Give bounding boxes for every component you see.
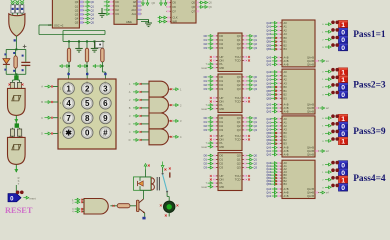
svg-text:OSC =2: OSC =2 bbox=[54, 24, 64, 28]
svg-text:Q3: Q3 bbox=[237, 128, 241, 132]
svg-text:D0: D0 bbox=[204, 34, 208, 38]
svg-text:Q2: Q2 bbox=[254, 83, 258, 87]
and-gate U10 output terminal bbox=[169, 104, 172, 106]
keypad button 5 bbox=[81, 97, 93, 109]
counter U16 74193 bbox=[218, 153, 242, 191]
svg-text:A10: A10 bbox=[131, 8, 136, 12]
svg-text:MR: MR bbox=[220, 145, 224, 149]
comparator U18 7485 bbox=[282, 69, 315, 114]
svg-text:B3: B3 bbox=[284, 47, 288, 51]
keypad button 2 bbox=[81, 83, 93, 95]
svg-text:Q0: Q0 bbox=[254, 75, 258, 79]
svg-text:A8: A8 bbox=[133, 0, 137, 4]
schmitt inverter U3 bbox=[8, 137, 26, 164]
svg-text:A11: A11 bbox=[132, 12, 137, 16]
svg-text:QB0: QB0 bbox=[266, 132, 271, 135]
keypad button ✱ bbox=[63, 127, 75, 139]
keypad button 1 bbox=[63, 83, 75, 95]
svg-text:B1: B1 bbox=[284, 135, 288, 139]
svg-text:D2: D2 bbox=[204, 83, 208, 87]
wire U21 output to R5 bbox=[110, 205, 117, 207]
relay RL1 coil bbox=[151, 178, 154, 190]
svg-text:Q2: Q2 bbox=[254, 42, 258, 46]
svg-text:D3: D3 bbox=[204, 46, 208, 50]
resistor R5 bbox=[117, 204, 130, 208]
power terminal for relay bbox=[144, 164, 147, 170]
junction J2 bbox=[15, 123, 19, 127]
gate input terminals column bbox=[141, 83, 150, 85]
svg-text:MR: MR bbox=[220, 66, 224, 70]
svg-text:Q0: Q0 bbox=[254, 116, 258, 120]
svg-text:A=B: A=B bbox=[284, 106, 289, 110]
svg-text:Q7: Q7 bbox=[192, 10, 196, 14]
svg-text:reset: reset bbox=[201, 66, 207, 70]
svg-text:QA=B: QA=B bbox=[307, 106, 314, 110]
resistor R2 bbox=[68, 41, 70, 48]
svg-text:B3: B3 bbox=[284, 182, 288, 186]
svg-text:QA1: QA1 bbox=[266, 26, 271, 29]
svg-text:A<B: A<B bbox=[284, 55, 289, 59]
svg-text:QA0: QA0 bbox=[266, 118, 271, 121]
svg-text:C: C bbox=[41, 116, 43, 120]
svg-text:TCD: TCD bbox=[235, 100, 241, 104]
and-gate U21 4-input bbox=[84, 199, 108, 215]
ground G1 under U7 bbox=[98, 8, 106, 17]
ic U8 latch top-center bbox=[171, 0, 196, 23]
svg-text:D1: D1 bbox=[204, 120, 208, 124]
transistor Q1 bbox=[136, 200, 139, 212]
and-gate U21 input terminals bbox=[82, 199, 84, 201]
counter U14 74193 bbox=[218, 74, 242, 113]
or-gate U1 input terminals bbox=[11, 0, 15, 4]
schmitt inverter U2 bbox=[8, 88, 26, 115]
svg-text:QB2: QB2 bbox=[266, 44, 271, 47]
keypad button 9 bbox=[100, 112, 112, 124]
svg-text:Q1: Q1 bbox=[254, 79, 258, 83]
or-gate U1 body bbox=[9, 14, 25, 36]
wire split to U2 inputs bbox=[11, 80, 13, 82]
svg-text:A3: A3 bbox=[284, 81, 288, 85]
svg-text:B0: B0 bbox=[284, 85, 288, 89]
svg-text:Pass2=3: Pass2=3 bbox=[353, 81, 386, 91]
svg-text:QB3: QB3 bbox=[266, 143, 271, 146]
svg-text:reset: reset bbox=[201, 107, 207, 111]
ic U6 keypad encoder top-left bbox=[52, 0, 79, 28]
svg-text:Q2: Q2 bbox=[75, 8, 79, 12]
svg-text:A<B: A<B bbox=[284, 187, 289, 191]
svg-text:CLK: CLK bbox=[173, 16, 178, 20]
svg-text:Q3: Q3 bbox=[75, 13, 79, 17]
svg-text:D2: D2 bbox=[116, 8, 120, 12]
led D2 green bbox=[164, 201, 175, 212]
resistor R1 bbox=[15, 49, 17, 56]
and-gate U11 bbox=[149, 113, 168, 129]
switch SW1 bbox=[162, 173, 164, 175]
svg-text:B0: B0 bbox=[284, 36, 288, 40]
svg-text:QA1: QA1 bbox=[266, 75, 271, 78]
comparator U17 7485 bbox=[282, 20, 315, 67]
svg-text:D3: D3 bbox=[204, 128, 208, 132]
svg-text:D1: D1 bbox=[204, 158, 208, 162]
svg-text:7: 7 bbox=[66, 114, 71, 123]
svg-text:A>B: A>B bbox=[284, 110, 289, 114]
svg-text:B1: B1 bbox=[284, 40, 288, 44]
svg-text:D3: D3 bbox=[220, 166, 224, 170]
svg-text:QB3: QB3 bbox=[266, 48, 271, 51]
svg-text:A0: A0 bbox=[284, 21, 288, 25]
svg-text:B2: B2 bbox=[284, 93, 288, 97]
keypad column vertical wires bbox=[68, 71, 70, 73]
svg-text:D7: D7 bbox=[173, 10, 177, 14]
keypad button # bbox=[100, 127, 112, 139]
keypad button 3 bbox=[100, 83, 112, 95]
svg-text:Q3: Q3 bbox=[237, 46, 241, 50]
logic toggle RESET probe bbox=[8, 194, 21, 202]
svg-text:QA2: QA2 bbox=[266, 63, 271, 66]
svg-text:A: A bbox=[129, 90, 131, 94]
ic U7 latch top-left bbox=[114, 0, 137, 24]
and-gate U9 output terminal bbox=[169, 88, 172, 90]
svg-text:QA=B: QA=B bbox=[307, 191, 314, 195]
and-gate U10 bbox=[149, 97, 168, 113]
svg-text:QA0: QA0 bbox=[266, 71, 271, 74]
svg-text:MR: MR bbox=[220, 107, 224, 111]
svg-text:QA2: QA2 bbox=[266, 79, 271, 82]
svg-text:QA1: QA1 bbox=[266, 121, 271, 124]
ground G3 bbox=[75, 41, 83, 52]
svg-text:TCD: TCD bbox=[235, 138, 241, 142]
svg-text:Q1: Q1 bbox=[254, 120, 258, 124]
svg-text:QB1: QB1 bbox=[266, 41, 271, 44]
svg-text:D3: D3 bbox=[204, 87, 208, 91]
svg-text:TCD: TCD bbox=[235, 59, 241, 63]
svg-text:QA>B: QA>B bbox=[307, 194, 314, 198]
svg-text:Q2: Q2 bbox=[254, 124, 258, 128]
svg-text:QA0: QA0 bbox=[266, 22, 271, 25]
svg-text:QA2: QA2 bbox=[266, 154, 271, 157]
svg-text:QB3: QB3 bbox=[266, 183, 271, 186]
svg-text:A2: A2 bbox=[284, 78, 288, 82]
svg-text:Q0: Q0 bbox=[254, 154, 258, 158]
svg-text:D0: D0 bbox=[204, 75, 208, 79]
svg-text:reset: reset bbox=[201, 185, 207, 189]
svg-text:Q6: Q6 bbox=[192, 5, 196, 9]
svg-text:A: A bbox=[41, 85, 43, 89]
svg-text:B3: B3 bbox=[284, 96, 288, 100]
svg-text:Q1: Q1 bbox=[254, 158, 258, 162]
switch SW1 terminal bbox=[161, 162, 164, 169]
svg-text:QA3: QA3 bbox=[266, 82, 271, 85]
svg-text:Q3: Q3 bbox=[254, 87, 258, 91]
svg-text:D1: D1 bbox=[204, 79, 208, 83]
svg-text:C: C bbox=[105, 82, 107, 85]
svg-text:Q6: Q6 bbox=[152, 1, 156, 5]
svg-text:A0: A0 bbox=[284, 117, 288, 121]
wire U3 output to reset probe bbox=[15, 164, 17, 172]
ground G2 bbox=[145, 20, 152, 27]
svg-text:B1: B1 bbox=[284, 89, 288, 93]
svg-text:A1: A1 bbox=[284, 120, 288, 124]
svg-text:Q0: Q0 bbox=[254, 34, 258, 38]
svg-text:D0: D0 bbox=[116, 0, 120, 4]
svg-text:A1: A1 bbox=[284, 25, 288, 29]
svg-text:8: 8 bbox=[85, 114, 90, 123]
svg-text:A>B: A>B bbox=[284, 194, 289, 198]
ground G4 bbox=[91, 41, 99, 52]
svg-text:MR: MR bbox=[220, 185, 224, 189]
svg-text:A>B: A>B bbox=[284, 153, 289, 157]
svg-text:A>B: A>B bbox=[284, 62, 289, 66]
svg-text:A2: A2 bbox=[284, 28, 288, 32]
svg-text:Q3: Q3 bbox=[254, 166, 258, 170]
keypad button 7 bbox=[63, 112, 75, 124]
svg-text:B3: B3 bbox=[284, 142, 288, 146]
keypad button 4 bbox=[63, 97, 75, 109]
svg-text:Q4: Q4 bbox=[75, 17, 79, 21]
comparator U20 7485 bbox=[282, 160, 315, 198]
svg-text:A=B: A=B bbox=[284, 191, 289, 195]
resistor R4 bbox=[101, 41, 103, 48]
svg-text:D5: D5 bbox=[173, 1, 177, 5]
svg-text:A2: A2 bbox=[284, 124, 288, 128]
svg-text:QA=B: QA=B bbox=[307, 149, 314, 153]
svg-text:Q2: Q2 bbox=[254, 162, 258, 166]
or-gate U1 output wire bbox=[15, 36, 17, 50]
svg-text:0: 0 bbox=[341, 45, 345, 52]
svg-text:D: D bbox=[129, 138, 131, 142]
counter U15 74193 bbox=[218, 115, 242, 151]
svg-text:D2: D2 bbox=[204, 162, 208, 166]
svg-text:QB1: QB1 bbox=[266, 90, 271, 93]
svg-text:QB0: QB0 bbox=[266, 86, 271, 89]
svg-text:D3: D3 bbox=[204, 166, 208, 170]
node bottom rail of RC network bbox=[6, 73, 26, 75]
svg-text:D2: D2 bbox=[204, 42, 208, 46]
svg-text:WR: WR bbox=[173, 20, 177, 24]
svg-text:✱: ✱ bbox=[65, 129, 72, 138]
input connector boxes of U3 bbox=[11, 128, 13, 129]
wire switch to LED bbox=[166, 193, 168, 197]
svg-text:5: 5 bbox=[85, 99, 90, 108]
svg-text:Pass3=9: Pass3=9 bbox=[353, 127, 386, 137]
svg-text:A3: A3 bbox=[284, 127, 288, 131]
svg-text:QB3: QB3 bbox=[266, 97, 271, 100]
svg-text:B0: B0 bbox=[284, 131, 288, 135]
svg-text:D6: D6 bbox=[173, 5, 177, 9]
wire ground rail above keypad bbox=[63, 40, 105, 42]
svg-text:QA2: QA2 bbox=[266, 111, 271, 114]
svg-text:4: 4 bbox=[66, 99, 71, 108]
keypad column wires with terminals bbox=[68, 62, 70, 72]
and-gate U11 output terminal bbox=[169, 120, 172, 122]
svg-text:Q5: Q5 bbox=[192, 1, 196, 5]
svg-text:QB0: QB0 bbox=[266, 37, 271, 40]
svg-text:#: # bbox=[103, 129, 108, 138]
counter U13 74193 bbox=[218, 33, 242, 72]
svg-text:Q1: Q1 bbox=[254, 38, 258, 42]
diode D1 bbox=[5, 49, 7, 58]
svg-text:D1: D1 bbox=[204, 38, 208, 42]
button LS1 bbox=[95, 42, 103, 48]
and-gate U12 output terminal bbox=[169, 136, 172, 138]
svg-text:QA3: QA3 bbox=[266, 128, 271, 131]
svg-text:QA2: QA2 bbox=[266, 29, 271, 32]
svg-text:A<B: A<B bbox=[284, 103, 289, 107]
resistor R3 bbox=[86, 41, 88, 48]
comparator U19 7485 bbox=[282, 116, 315, 157]
svg-text:Pass4=4: Pass4=4 bbox=[353, 174, 386, 184]
keypad button 6 bbox=[100, 97, 112, 109]
svg-text:TCD: TCD bbox=[235, 178, 241, 182]
svg-text:D1: D1 bbox=[116, 4, 120, 8]
and-gate U9 bbox=[149, 81, 168, 97]
keypad button 0 bbox=[81, 127, 93, 139]
svg-text:C: C bbox=[129, 122, 131, 126]
svg-text:Q0: Q0 bbox=[75, 0, 79, 4]
svg-text:QB2: QB2 bbox=[266, 94, 271, 97]
svg-text:Q3: Q3 bbox=[254, 46, 258, 50]
wire U2 output bbox=[15, 115, 17, 125]
svg-text:1: 1 bbox=[341, 139, 345, 146]
svg-text:Q3: Q3 bbox=[237, 166, 241, 170]
svg-text:6: 6 bbox=[103, 99, 108, 108]
svg-text:QA<B: QA<B bbox=[307, 146, 314, 150]
keypad row pins bbox=[53, 86, 58, 88]
svg-text:QA<B: QA<B bbox=[307, 103, 314, 107]
svg-text:QA3: QA3 bbox=[266, 33, 271, 36]
svg-text:QA>B: QA>B bbox=[307, 153, 314, 157]
svg-text:0: 0 bbox=[341, 92, 345, 99]
svg-text:0: 0 bbox=[341, 185, 345, 192]
svg-text:0: 0 bbox=[85, 129, 90, 138]
svg-text:B2: B2 bbox=[284, 43, 288, 47]
svg-text:1: 1 bbox=[66, 84, 71, 93]
node top rail of RC network bbox=[6, 48, 26, 50]
svg-text:QA<B: QA<B bbox=[307, 187, 314, 191]
svg-text:Q1: Q1 bbox=[75, 4, 79, 8]
svg-text:9: 9 bbox=[103, 114, 108, 123]
svg-text:A9: A9 bbox=[133, 4, 137, 8]
svg-text:QA<B: QA<B bbox=[307, 55, 314, 59]
svg-text:A=B: A=B bbox=[284, 149, 289, 153]
svg-text:QB2: QB2 bbox=[266, 139, 271, 142]
svg-text:D3: D3 bbox=[220, 87, 224, 91]
junction J1 bbox=[15, 74, 17, 77]
capacitor C1 bbox=[25, 49, 27, 61]
svg-text:B: B bbox=[41, 100, 43, 104]
svg-text:3: 3 bbox=[103, 84, 108, 93]
svg-text:D3: D3 bbox=[220, 46, 224, 50]
svg-text:QB1: QB1 bbox=[266, 136, 271, 139]
svg-text:D2: D2 bbox=[204, 124, 208, 128]
svg-text:B2: B2 bbox=[284, 138, 288, 142]
svg-text:D0: D0 bbox=[204, 116, 208, 120]
relay RL1 diode bbox=[134, 177, 151, 190]
svg-text:A3: A3 bbox=[284, 32, 288, 36]
svg-text:Q3: Q3 bbox=[254, 128, 258, 132]
and-gate U12 bbox=[149, 129, 168, 145]
keypad button 8 bbox=[81, 112, 93, 124]
svg-text:Q3: Q3 bbox=[237, 87, 241, 91]
svg-text:D3: D3 bbox=[220, 128, 224, 132]
svg-text:A0: A0 bbox=[284, 70, 288, 74]
svg-text:2: 2 bbox=[85, 84, 90, 93]
svg-text:D: D bbox=[41, 132, 43, 136]
svg-text:QA=B: QA=B bbox=[307, 59, 314, 63]
wire U6 LE loop bbox=[39, 24, 52, 26]
svg-text:reset: reset bbox=[29, 196, 35, 200]
svg-text:Pass1=1: Pass1=1 bbox=[353, 30, 386, 40]
terminal pair top edge A bbox=[142, 0, 145, 6]
wire U7 CS to ground bbox=[137, 19, 149, 21]
svg-text:D0: D0 bbox=[204, 154, 208, 158]
svg-text:Q5: Q5 bbox=[75, 21, 79, 25]
svg-text:A=B: A=B bbox=[284, 59, 289, 63]
svg-text:RESET: RESET bbox=[5, 206, 33, 215]
svg-text:A<B: A<B bbox=[284, 146, 289, 150]
svg-text:QA>B: QA>B bbox=[307, 62, 314, 66]
keypad KP1 bbox=[58, 79, 116, 149]
svg-text:reset: reset bbox=[201, 145, 207, 149]
svg-text:QA>B: QA>B bbox=[307, 110, 314, 114]
svg-text:A1: A1 bbox=[284, 74, 288, 78]
terminal pair top edge B bbox=[160, 0, 163, 6]
svg-text:QA2: QA2 bbox=[266, 125, 271, 128]
svg-text:QA2: QA2 bbox=[266, 195, 271, 198]
svg-text:B: B bbox=[129, 106, 131, 110]
svg-text:D3: D3 bbox=[116, 12, 120, 16]
svg-text:AB/E: AB/E bbox=[126, 20, 132, 24]
